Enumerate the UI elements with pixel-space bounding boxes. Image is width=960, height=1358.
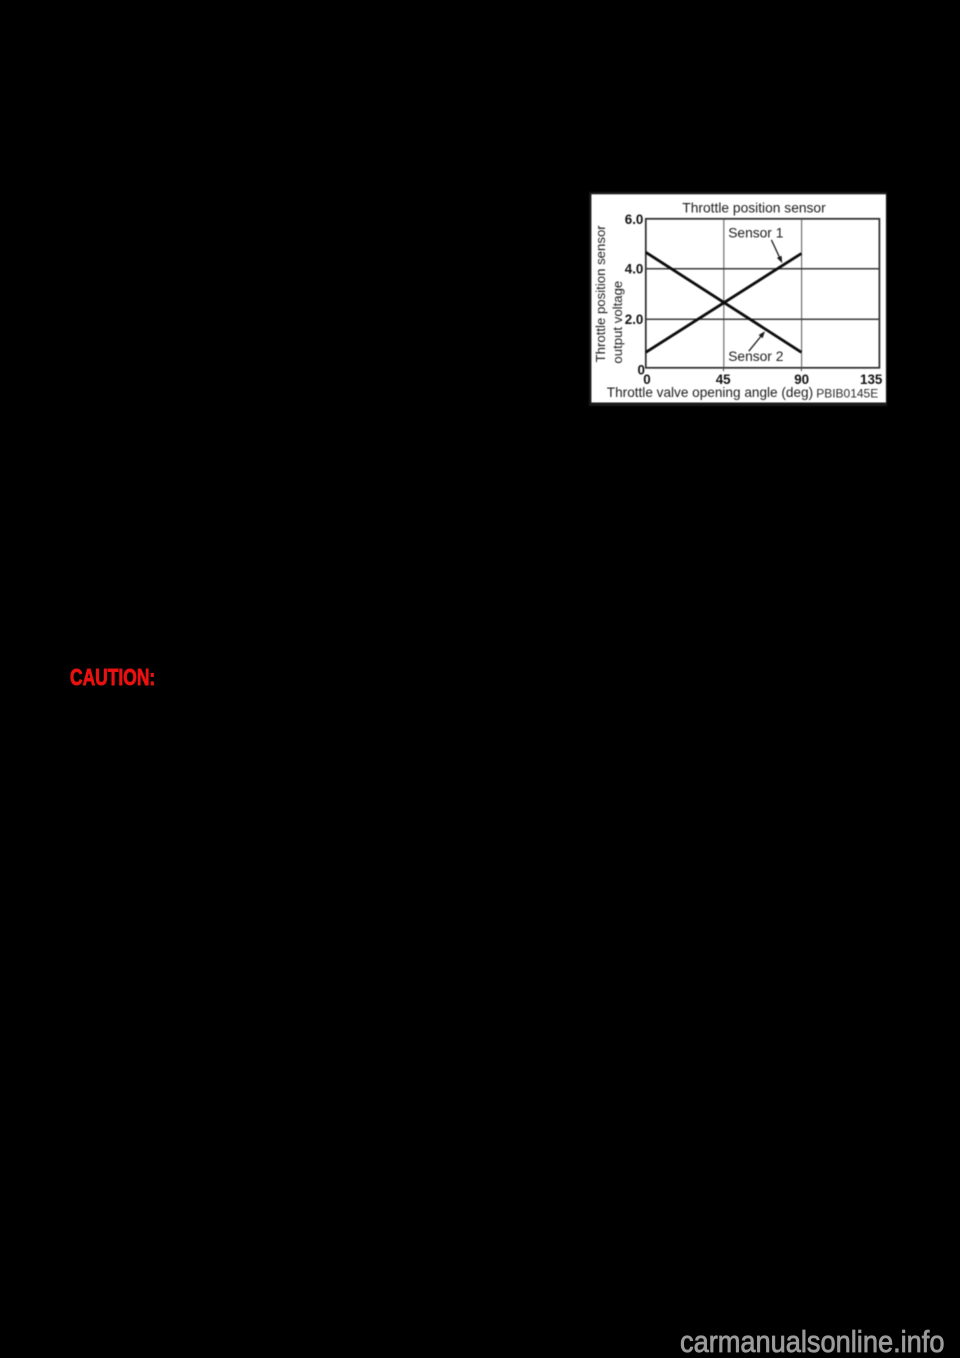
svg-text:4.0: 4.0 — [625, 262, 644, 277]
figure white background — [591, 194, 886, 402]
sensor 1 curve — [646, 254, 802, 353]
sensor 2 leader arrow — [749, 335, 762, 351]
gridline horizontal 2.0V — [646, 318, 880, 320]
sensor 2 curve — [646, 252, 802, 352]
plot border — [646, 219, 880, 368]
gridline vertical 90deg — [801, 219, 803, 368]
watermark carmanualsonline.info — [680, 1324, 944, 1358]
svg-text:Sensor 1: Sensor 1 — [728, 225, 783, 240]
gridline vertical 45deg — [723, 219, 725, 368]
svg-text:6.0: 6.0 — [625, 212, 644, 227]
x tick 90 — [800, 368, 802, 371]
svg-text:output voltage: output voltage — [610, 281, 625, 364]
svg-text:2.0: 2.0 — [625, 312, 644, 327]
figure dark frame — [589, 192, 887, 406]
svg-text:Throttle valve opening angle (: Throttle valve opening angle (deg) — [607, 385, 813, 400]
figure: throttle position sensor chart — [589, 192, 887, 406]
x tick 45 — [723, 368, 725, 371]
svg-text:Sensor 2: Sensor 2 — [728, 349, 783, 364]
CAUTION heading — [70, 664, 155, 691]
svg-text:135: 135 — [860, 372, 883, 387]
svg-text:PBIB0145E: PBIB0145E — [816, 387, 878, 401]
svg-text:Throttle position sensor: Throttle position sensor — [682, 201, 826, 216]
sensor 1 leader arrow — [771, 240, 780, 259]
svg-text:Throttle position sensor: Throttle position sensor — [593, 225, 608, 363]
gridline horizontal 4.0V — [646, 268, 880, 270]
